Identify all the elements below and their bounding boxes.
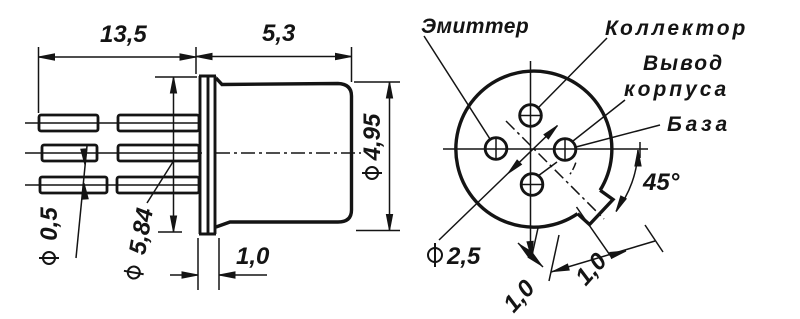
svg-text:База: База <box>667 113 731 136</box>
svg-text:5,3: 5,3 <box>262 20 296 47</box>
svg-text:0,5: 0,5 <box>36 207 63 241</box>
svg-text:Эмиттер: Эмиттер <box>421 15 529 38</box>
svg-text:1,0: 1,0 <box>236 243 270 270</box>
svg-text:корпуса: корпуса <box>624 78 729 101</box>
svg-text:Вывод: Вывод <box>643 52 724 75</box>
svg-text:4,95: 4,95 <box>359 113 386 161</box>
svg-text:2,5: 2,5 <box>446 243 481 270</box>
svg-text:Коллектор: Коллектор <box>605 17 748 40</box>
svg-text:13,5: 13,5 <box>100 21 147 48</box>
svg-text:1,0: 1,0 <box>498 274 541 317</box>
svg-text:45°: 45° <box>642 169 680 196</box>
svg-text:1,0: 1,0 <box>570 247 613 290</box>
svg-text:5,84: 5,84 <box>124 206 159 257</box>
